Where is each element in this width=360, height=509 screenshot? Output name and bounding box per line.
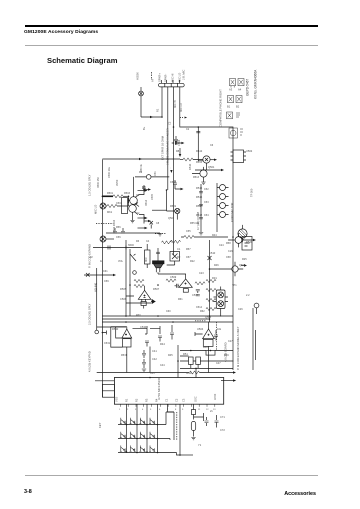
labels near Q1 bbox=[196, 149, 215, 230]
resistor R62 bbox=[171, 240, 181, 243]
svg-text:SPKR+: SPKR+ bbox=[158, 73, 162, 82]
left trunk wire bbox=[101, 160, 103, 398]
box at Q4/Q5 bbox=[122, 198, 128, 214]
footer right bbox=[284, 491, 316, 497]
svg-text:R44: R44 bbox=[160, 342, 165, 346]
svg-text:6: 6 bbox=[159, 409, 161, 411]
box FL1 label bbox=[144, 257, 148, 262]
svg-text:C53: C53 bbox=[204, 201, 209, 204]
bus y233 bbox=[106, 228, 162, 236]
svg-text:R48: R48 bbox=[203, 346, 208, 349]
right note column 2 bbox=[224, 342, 228, 362]
ground Q5 bbox=[130, 221, 134, 223]
header bar bbox=[25, 25, 318, 28]
IC right pin diamond bbox=[221, 379, 236, 382]
IC left pin box bbox=[95, 381, 114, 397]
svg-text:C1: C1 bbox=[165, 398, 169, 402]
arrow net right bbox=[241, 264, 247, 266]
wire x253 bbox=[252, 322, 254, 370]
svg-text:10k: 10k bbox=[217, 328, 222, 331]
svg-text:C4: C4 bbox=[146, 240, 150, 243]
right note column 1 bbox=[236, 326, 240, 370]
svg-text:U504: U504 bbox=[197, 327, 204, 331]
keypad column wires bbox=[127, 405, 177, 453]
svg-text:R3: R3 bbox=[136, 240, 140, 243]
svg-text:C23: C23 bbox=[199, 272, 204, 275]
svg-text:VSS: VSS bbox=[115, 397, 119, 402]
label cluster R/C bbox=[112, 219, 116, 233]
svg-text:C27: C27 bbox=[228, 340, 233, 343]
svg-text:R517: R517 bbox=[196, 204, 203, 208]
resistor R24 bbox=[195, 282, 205, 285]
svg-text:Q504: Q504 bbox=[205, 316, 212, 319]
svg-text:Q502: Q502 bbox=[168, 217, 175, 220]
svg-text:R1: R1 bbox=[156, 108, 160, 112]
svg-text:MIC: MIC bbox=[144, 257, 148, 262]
svg-text:C506: C506 bbox=[120, 297, 127, 301]
svg-text:4.0 (20) BOARD: 4.0 (20) BOARD bbox=[224, 342, 228, 362]
svg-text:B2: B2 bbox=[236, 105, 240, 109]
note COMPATIBLE PHONE bbox=[219, 89, 223, 127]
dashed wire bbox=[96, 223, 113, 225]
relay box K1 bbox=[242, 237, 252, 251]
caps cluster under U3 bbox=[142, 350, 146, 371]
wire mid join bbox=[129, 196, 130, 206]
svg-text:J.B.(20) COMM MIC HANGER: J.B.(20) COMM MIC HANGER bbox=[166, 128, 170, 165]
switch S2 bbox=[130, 249, 136, 316]
svg-text:C2: C2 bbox=[175, 398, 179, 402]
wire op1 loop bbox=[126, 296, 156, 303]
Q4 collector arrow bbox=[133, 177, 135, 197]
header rule bbox=[25, 44, 318, 47]
svg-text:C56: C56 bbox=[116, 236, 121, 239]
svg-text:S500: S500 bbox=[128, 244, 134, 247]
right icon pair P1 bbox=[230, 79, 245, 88]
svg-text:C500 10u: C500 10u bbox=[108, 167, 111, 178]
resistor R23 bbox=[166, 279, 176, 282]
connector pin ticks bbox=[162, 80, 180, 83]
test point label TP500 bbox=[250, 188, 254, 197]
svg-text:C16: C16 bbox=[228, 250, 233, 253]
wire y210 bbox=[152, 209, 167, 211]
svg-text:SPKR-: SPKR- bbox=[164, 74, 168, 82]
left note 4 bbox=[88, 303, 92, 325]
svg-text:R512: R512 bbox=[196, 149, 203, 153]
left margin note 1 bbox=[88, 174, 92, 196]
svg-text:C55: C55 bbox=[186, 230, 191, 233]
dashed net under pack bbox=[195, 320, 206, 322]
svg-text:4.0 (20) KEYPAD: 4.0 (20) KEYPAD bbox=[88, 351, 92, 372]
op-amp U2 bbox=[158, 274, 192, 292]
transistor Q6 bbox=[228, 233, 256, 248]
svg-text:B1: B1 bbox=[227, 105, 231, 109]
svg-text:TP 500: TP 500 bbox=[250, 188, 254, 197]
junction dots bbox=[102, 116, 234, 456]
labels top cluster bbox=[174, 100, 214, 179]
svg-text:A4: A4 bbox=[238, 88, 242, 92]
svg-text:41000 MIC TOP: 41000 MIC TOP bbox=[230, 202, 234, 222]
wire pin3 trunk bbox=[173, 87, 175, 255]
svg-text:C6: C6 bbox=[210, 144, 214, 147]
LED column label bbox=[230, 202, 234, 222]
svg-text:R44: R44 bbox=[212, 234, 217, 237]
svg-text:2.5 OD (20) SPLY: 2.5 OD (20) SPLY bbox=[88, 303, 92, 325]
svg-text:C531: C531 bbox=[104, 342, 111, 345]
right boundary wire bbox=[232, 158, 234, 370]
svg-text:R31: R31 bbox=[212, 276, 217, 280]
dashed arrow note bbox=[180, 117, 187, 119]
footer left bbox=[24, 489, 32, 495]
cap C13 chain bbox=[173, 180, 184, 190]
svg-text:P. M COD EXPAND MODELS ONLY: P. M COD EXPAND MODELS ONLY bbox=[236, 326, 240, 370]
svg-text:12: 12 bbox=[206, 409, 209, 411]
labels lower cluster bbox=[104, 342, 229, 375]
page title bbox=[47, 56, 117, 65]
svg-text:R58: R58 bbox=[226, 242, 231, 245]
extra labels right mid bbox=[190, 244, 250, 343]
svg-text:C2: C2 bbox=[186, 128, 190, 131]
right icon P4 speaker box bbox=[229, 128, 243, 138]
dashed net bbox=[155, 233, 166, 235]
svg-text:B+: B+ bbox=[142, 126, 146, 130]
svg-text:R62: R62 bbox=[200, 310, 205, 313]
microphone MK1 bbox=[100, 203, 106, 209]
svg-text:C60: C60 bbox=[166, 310, 171, 313]
wire Q1 collector to bus bbox=[198, 127, 203, 161]
left bus top wire bbox=[102, 158, 180, 160]
svg-text:R55 10k: R55 10k bbox=[190, 222, 200, 225]
svg-text:13: 13 bbox=[213, 409, 216, 411]
bus above IC bbox=[97, 372, 189, 374]
svg-text:R501: R501 bbox=[107, 192, 114, 195]
svg-text:R22: R22 bbox=[190, 260, 195, 263]
svg-text:C504: C504 bbox=[177, 139, 181, 146]
resistor R61 bbox=[162, 241, 172, 244]
label mid-left bbox=[100, 260, 108, 273]
capacitor C31 bbox=[196, 290, 200, 296]
svg-text:C54: C54 bbox=[204, 214, 209, 217]
trunk x209 bbox=[209, 240, 211, 322]
svg-text:GEPD-5467: GEPD-5467 bbox=[246, 79, 250, 96]
svg-text:R51: R51 bbox=[183, 352, 188, 356]
svg-text:5: 5 bbox=[150, 409, 152, 411]
keypad label bbox=[98, 422, 102, 428]
transistor Q9 bbox=[135, 175, 169, 180]
right icon pair P2 bbox=[228, 96, 243, 103]
svg-text:Q503: Q503 bbox=[239, 263, 246, 267]
resistor R41 bbox=[184, 235, 194, 238]
svg-text:HD 440: HD 440 bbox=[94, 282, 98, 292]
svg-text:OSC: OSC bbox=[194, 396, 198, 402]
bus lines mid bbox=[102, 316, 233, 322]
cap C41 bbox=[214, 330, 218, 341]
wire pin2 down bbox=[167, 87, 169, 190]
svg-text:MIC LO: MIC LO bbox=[180, 103, 183, 112]
svg-text:C58: C58 bbox=[226, 256, 231, 259]
box FL1 bbox=[145, 244, 151, 268]
svg-text:C530: C530 bbox=[140, 325, 147, 329]
diode D7 bbox=[151, 300, 156, 304]
connector side label bbox=[182, 70, 186, 80]
svg-text:R510: R510 bbox=[188, 163, 192, 170]
svg-text:R2: R2 bbox=[135, 398, 139, 402]
resistor column R31-R34 bbox=[206, 279, 216, 310]
connector J1 bbox=[159, 83, 185, 87]
svg-text:R56: R56 bbox=[116, 226, 121, 229]
svg-text:MK1: MK1 bbox=[107, 211, 113, 214]
svg-text:C47: C47 bbox=[216, 362, 221, 365]
svg-text:R57: R57 bbox=[186, 248, 191, 251]
junction dots bus bbox=[125, 315, 210, 323]
icon pair P2 labels bbox=[227, 105, 240, 109]
svg-text:9: 9 bbox=[182, 409, 184, 411]
cap X on trunk bbox=[208, 256, 212, 260]
transistor Q7 bbox=[210, 262, 243, 276]
labels mid cluster bbox=[107, 171, 177, 243]
svg-text:U701 MC145160: U701 MC145160 bbox=[157, 377, 161, 400]
tick A+ bbox=[151, 72, 153, 80]
svg-text:R530: R530 bbox=[112, 327, 119, 331]
svg-text:C24: C24 bbox=[219, 244, 224, 247]
svg-text:GND: GND bbox=[186, 372, 192, 375]
svg-text:R507: R507 bbox=[153, 287, 160, 291]
svg-text:C26: C26 bbox=[238, 308, 243, 311]
svg-text:R512: R512 bbox=[196, 161, 203, 164]
svg-text:C41: C41 bbox=[152, 349, 157, 353]
wire x253 extension bbox=[253, 308, 256, 360]
footer rule bbox=[25, 474, 318, 477]
filter box FL2 bbox=[167, 252, 180, 266]
mic M3 on riser bbox=[95, 330, 99, 334]
svg-text:P. IN COD EXPAND: P. IN COD EXPAND bbox=[88, 244, 92, 268]
cap C70 right of crystal bbox=[215, 415, 219, 428]
icon pair P1 labels bbox=[229, 88, 242, 92]
svg-text:C71: C71 bbox=[220, 415, 225, 419]
wire left riser bbox=[97, 268, 126, 330]
svg-text:C509: C509 bbox=[170, 275, 177, 279]
svg-text:C2: C2 bbox=[168, 121, 172, 125]
left note 5 bbox=[88, 351, 92, 372]
wire pin1 down bbox=[161, 87, 163, 117]
microphone MK2 bbox=[100, 236, 114, 242]
svg-text:C510: C510 bbox=[209, 251, 216, 255]
svg-text:MIC HI: MIC HI bbox=[174, 100, 177, 108]
svg-text:1.5 OD (20) SPLY: 1.5 OD (20) SPLY bbox=[88, 174, 92, 196]
LED column D1-D4 bbox=[217, 183, 229, 232]
svg-text:4x: 4x bbox=[100, 260, 103, 263]
wire speaker down bbox=[157, 272, 159, 274]
op-amp U1 bbox=[138, 286, 151, 309]
small arrow mid trunk bbox=[170, 168, 172, 173]
svg-text:R519: R519 bbox=[170, 205, 177, 208]
hook switch S1 bbox=[139, 87, 144, 117]
svg-text:C514: C514 bbox=[196, 306, 203, 309]
svg-text:HOOK: HOOK bbox=[136, 72, 140, 80]
capacitor C12 horizontal bbox=[172, 141, 185, 145]
svg-text:C512: C512 bbox=[170, 181, 177, 184]
connector pin labels bbox=[151, 73, 182, 82]
svg-text:J.B. MIC: J.B. MIC bbox=[182, 70, 186, 80]
svg-text:A3: A3 bbox=[229, 88, 233, 92]
resistor box R52 bbox=[196, 357, 201, 364]
svg-text:C42: C42 bbox=[152, 357, 157, 361]
svg-text:C52: C52 bbox=[204, 188, 209, 191]
extra labels pass2 bbox=[97, 163, 231, 317]
IC bottom pin number labels bbox=[119, 409, 216, 411]
left note 6 bbox=[94, 282, 98, 292]
IC internal pin labels bbox=[115, 377, 218, 402]
svg-text:C57: C57 bbox=[186, 256, 191, 259]
resistor R502 bbox=[106, 204, 128, 207]
transistor Q4 bbox=[129, 195, 140, 207]
svg-text:U700: U700 bbox=[213, 393, 217, 400]
ground Q2 bbox=[201, 182, 205, 184]
transistor Q1 bbox=[193, 156, 210, 170]
Q2 lower arrows bbox=[195, 169, 221, 171]
svg-text:R49: R49 bbox=[224, 354, 229, 357]
Q5 emitter network bbox=[133, 185, 145, 224]
dual transistor pack Q8 bbox=[214, 287, 229, 317]
svg-text:R2: R2 bbox=[177, 255, 181, 259]
svg-text:C3: C3 bbox=[182, 398, 186, 402]
thick net stub bbox=[102, 195, 113, 197]
bus wires lower bbox=[180, 351, 233, 369]
resistor R22 bbox=[134, 284, 144, 287]
misc value labels upper bbox=[142, 108, 253, 267]
feedback loop U3 bbox=[102, 327, 126, 347]
arrow wire mid-left bbox=[84, 273, 116, 277]
wire R501 to junction bbox=[123, 195, 129, 197]
svg-text:EXT SPKR 16 OHM: EXT SPKR 16 OHM bbox=[161, 135, 165, 160]
note GEPD-5467 bbox=[246, 79, 250, 96]
wire pin4 down-right bbox=[180, 87, 233, 158]
transistor Q3 hatched can bbox=[238, 225, 247, 242]
arrow right Q network bbox=[144, 188, 151, 222]
svg-text:R514: R514 bbox=[145, 199, 148, 206]
svg-text:R505: R505 bbox=[120, 287, 127, 291]
crystal labels bbox=[198, 409, 225, 447]
svg-text:R46: R46 bbox=[214, 264, 219, 267]
arrow stub a2 bbox=[138, 217, 148, 219]
svg-text:R60: R60 bbox=[136, 314, 141, 317]
wire bus y237 bbox=[181, 236, 228, 238]
transistor Q10 bbox=[175, 208, 180, 219]
svg-text:R8: R8 bbox=[176, 150, 180, 153]
labels right cluster bbox=[196, 234, 237, 319]
svg-text:C1: C1 bbox=[177, 247, 181, 251]
arrow stub a1 bbox=[138, 189, 148, 191]
svg-text:C505: C505 bbox=[151, 193, 154, 200]
hook switch label bbox=[136, 72, 140, 80]
svg-text:11: 11 bbox=[198, 409, 201, 411]
svg-text:2.2: 2.2 bbox=[246, 294, 250, 297]
svg-text:C512: C512 bbox=[192, 293, 199, 297]
keypad row1 bbox=[118, 412, 174, 425]
svg-text:MIC HI: MIC HI bbox=[171, 73, 175, 82]
svg-text:A+: A+ bbox=[151, 78, 155, 82]
op-amp U3 bbox=[122, 327, 132, 373]
wire net row247 bbox=[93, 246, 142, 250]
capacitor C11 bbox=[174, 136, 178, 144]
svg-text:R515: R515 bbox=[196, 186, 203, 190]
transistor Q5 bbox=[129, 203, 138, 215]
svg-text:R520: R520 bbox=[246, 240, 253, 244]
note kit number bbox=[254, 69, 258, 99]
svg-text:Y1: Y1 bbox=[198, 443, 202, 447]
transistor Q2 bbox=[192, 167, 207, 182]
wire to IC top pins bbox=[150, 345, 196, 378]
net label column MIC HANGER bbox=[161, 128, 170, 165]
resistor box R53 bbox=[206, 351, 215, 356]
caps right of U3 bbox=[133, 325, 175, 347]
svg-text:R61: R61 bbox=[178, 298, 183, 301]
svg-text:R3: R3 bbox=[145, 398, 149, 402]
keypad row3 bbox=[118, 446, 180, 456]
capacitor C15 bbox=[196, 131, 200, 133]
svg-text:C44: C44 bbox=[160, 364, 165, 367]
svg-text:R45: R45 bbox=[168, 354, 173, 357]
svg-text:MIC LO: MIC LO bbox=[94, 205, 98, 214]
svg-text:1: 1 bbox=[119, 409, 121, 411]
resistor R21 bbox=[134, 279, 144, 282]
left note 3 bbox=[88, 244, 92, 268]
svg-text:R25: R25 bbox=[242, 258, 247, 261]
svg-text:U502: U502 bbox=[246, 149, 253, 153]
dashed riser bbox=[216, 322, 218, 350]
op-amp U4 bbox=[195, 322, 214, 373]
svg-text:2: 2 bbox=[127, 409, 129, 411]
header title text bbox=[24, 30, 98, 35]
svg-text:C45: C45 bbox=[150, 372, 155, 375]
resistor box R51 bbox=[189, 357, 194, 364]
svg-text:C501: C501 bbox=[116, 202, 123, 205]
misc value labels lower bbox=[90, 255, 217, 361]
svg-text:R503: R503 bbox=[124, 192, 131, 195]
svg-text:R531: R531 bbox=[121, 354, 128, 357]
svg-text:C61: C61 bbox=[103, 270, 108, 273]
svg-text:VR50: VR50 bbox=[116, 179, 119, 186]
svg-text:8: 8 bbox=[175, 409, 177, 411]
Q1 output arrow bbox=[210, 159, 214, 161]
arrow A+ down bbox=[179, 148, 182, 157]
speaker LS1 bbox=[153, 248, 165, 272]
component chain x201 bbox=[199, 184, 203, 235]
IC U700 bbox=[114, 378, 223, 407]
svg-text:Kit No. GMKN4066A: Kit No. GMKN4066A bbox=[254, 69, 258, 99]
svg-text:C59: C59 bbox=[104, 280, 109, 283]
arrow stub a3 bbox=[138, 227, 148, 229]
DIP U5 bbox=[231, 150, 247, 163]
resistor R501 bbox=[113, 195, 123, 198]
svg-text:COMPATIBLE PHONE RIGHT: COMPATIBLE PHONE RIGHT bbox=[219, 89, 223, 127]
right icon P3 bbox=[227, 112, 241, 119]
capacitor C21 bbox=[142, 187, 146, 188]
svg-text:C51: C51 bbox=[154, 171, 157, 176]
keypad row2 bbox=[118, 432, 170, 440]
svg-text:TP1: TP1 bbox=[232, 284, 237, 287]
crystal Y1 cluster bbox=[180, 405, 209, 456]
svg-text:VOL: VOL bbox=[118, 260, 124, 263]
svg-text:R500 150: R500 150 bbox=[97, 177, 100, 188]
resistor R11 bbox=[180, 158, 193, 161]
svg-text:R516: R516 bbox=[196, 195, 203, 199]
svg-text:4: 4 bbox=[142, 409, 144, 411]
svg-text:C72: C72 bbox=[220, 428, 225, 432]
svg-text:R513: R513 bbox=[193, 176, 200, 179]
svg-text:KEY: KEY bbox=[98, 422, 102, 428]
svg-text:R1: R1 bbox=[125, 398, 129, 402]
wire hook to bus bbox=[141, 116, 162, 118]
